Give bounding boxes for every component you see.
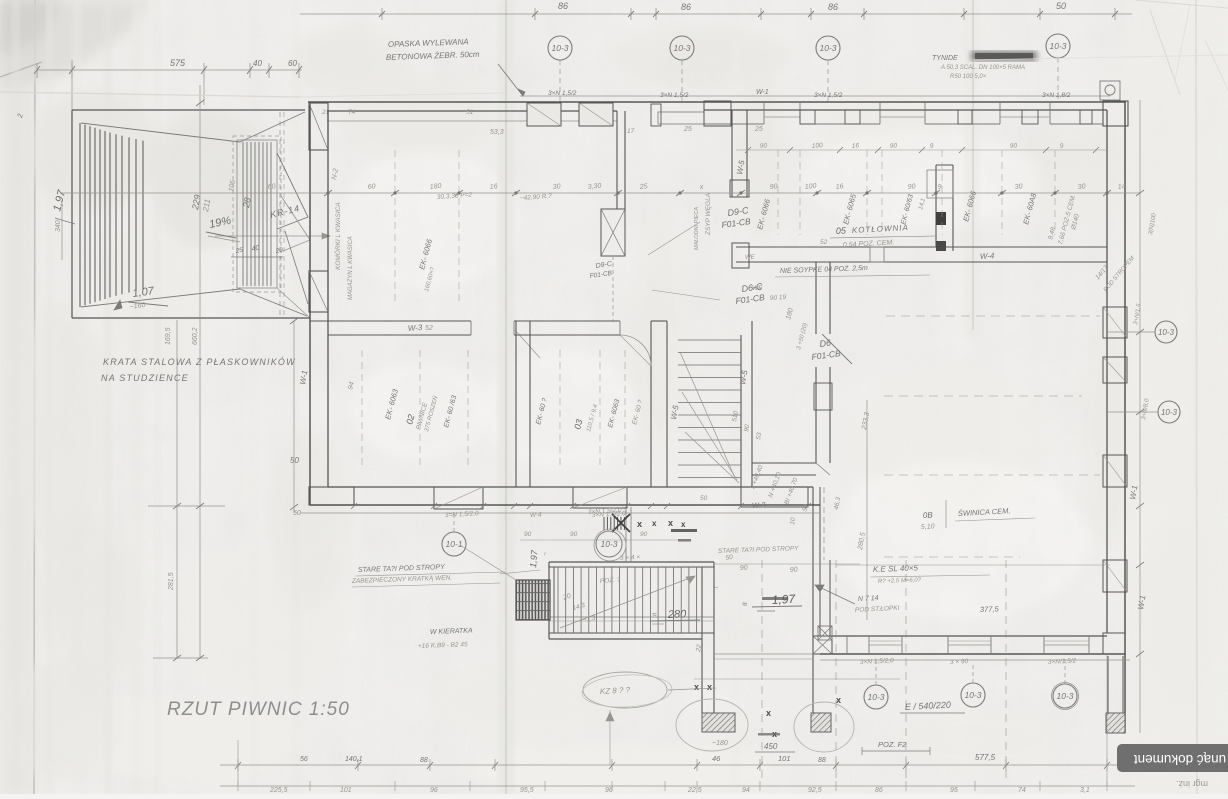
svg-text:60: 60	[288, 59, 297, 68]
lower wing walls	[549, 561, 714, 563]
svg-text:A 50,3 SCAL. DN 100×5 RAMA: A 50,3 SCAL. DN 100×5 RAMA	[940, 65, 1025, 71]
svg-text:x: x	[681, 520, 686, 529]
svg-text:101: 101	[340, 787, 352, 794]
axis circles 10-3 top	[548, 36, 572, 60]
svg-text:W-4: W-4	[530, 511, 543, 519]
svg-text:90: 90	[570, 531, 578, 538]
upper-left dimension line	[37, 69, 302, 71]
landing steps	[237, 140, 277, 288]
svg-text:28: 28	[241, 197, 253, 210]
svg-text:x: x	[707, 682, 712, 692]
long vertical dims	[199, 85, 201, 658]
svg-text:~180: ~180	[712, 740, 728, 747]
svg-text:40: 40	[253, 59, 262, 68]
svg-text:10-3: 10-3	[673, 43, 690, 53]
svg-text:ZSYP WĘGLA: ZSYP WĘGLA	[705, 193, 712, 236]
svg-text:660,2: 660,2	[192, 327, 199, 345]
svg-text:95: 95	[950, 787, 958, 794]
svg-text:x: x	[694, 682, 699, 692]
svg-text:140,1: 140,1	[345, 756, 363, 763]
svg-text:x: x	[766, 708, 771, 718]
svg-text:50: 50	[700, 495, 708, 502]
svg-text:340: 340	[55, 220, 62, 232]
svg-text:W-3: W-3	[752, 500, 767, 510]
svg-text:90: 90	[769, 183, 778, 191]
svg-text:3 × 4 ×: 3 × 4 ×	[620, 554, 641, 562]
svg-text:94: 94	[742, 787, 750, 794]
slab dashes room1	[394, 150, 396, 305]
hatched pier wing	[702, 713, 735, 732]
top dimension line	[300, 13, 1132, 15]
slab dashes kotlownia	[777, 150, 779, 235]
svg-text:05: 05	[836, 225, 848, 236]
svg-text:577,5: 577,5	[975, 753, 996, 762]
beam dashes big room	[886, 315, 1100, 317]
svg-text:74: 74	[1018, 787, 1026, 794]
svg-text:0B: 0B	[923, 510, 934, 520]
svg-text:60: 60	[267, 183, 276, 191]
interior stair	[740, 335, 742, 487]
dim row y150 kotlownia	[736, 149, 1107, 151]
wall W-5 vertical top	[731, 110, 733, 197]
svg-text:51: 51	[466, 109, 474, 116]
left wall	[309, 102, 311, 505]
svg-text:POZ. F2: POZ. F2	[878, 740, 907, 749]
svg-text:3,1: 3,1	[1080, 787, 1090, 794]
svg-text:25: 25	[754, 126, 763, 133]
svg-text:W KIERATKA: W KIERATKA	[430, 628, 473, 636]
svg-text:16: 16	[489, 183, 498, 191]
svg-text:50: 50	[290, 456, 299, 465]
room divider walls	[515, 321, 517, 487]
svg-text:90: 90	[640, 531, 648, 538]
svg-text:W-4: W-4	[980, 251, 996, 261]
svg-text:3×N 1,5/2: 3×N 1,5/2	[660, 92, 689, 99]
svg-text:D6: D6	[819, 337, 832, 349]
svg-text:MAŁODNI PIECA: MAŁODNI PIECA	[694, 207, 700, 250]
svg-text:225,5: 225,5	[269, 787, 288, 794]
svg-text:10-3: 10-3	[1056, 691, 1073, 701]
svg-text:25: 25	[683, 126, 692, 133]
svg-text:5,10: 5,10	[921, 523, 935, 531]
svg-text:377,5: 377,5	[980, 604, 1000, 614]
svg-text:14: 14	[1117, 183, 1126, 191]
top-right pencil streaks	[1150, 10, 1180, 95]
svg-text:25: 25	[234, 247, 244, 255]
axis circles bottom	[864, 685, 888, 709]
svg-text:96: 96	[605, 787, 613, 794]
svg-text:3×N 1,5/2: 3×N 1,5/2	[814, 92, 843, 99]
svg-text:100: 100	[804, 183, 816, 191]
svg-text:KZ 8 ? ?: KZ 8 ? ?	[600, 685, 631, 696]
bottom wall left section	[310, 504, 820, 506]
svg-text:30: 30	[552, 183, 561, 191]
svg-text:NA STUDZIENCE: NA STUDZIENCE	[101, 373, 189, 383]
dim line y513	[300, 512, 820, 514]
svg-text:450: 450	[764, 742, 778, 751]
svg-text:86: 86	[828, 2, 838, 12]
svg-text:POZ. ?: POZ. ?	[600, 577, 621, 585]
svg-text:86: 86	[875, 787, 883, 794]
svg-text:x: x	[836, 695, 841, 705]
svg-text:~: ~	[542, 551, 549, 556]
svg-text:90: 90	[790, 566, 798, 574]
svg-text:W-3: W-3	[408, 323, 424, 333]
svg-text:x: x	[652, 519, 657, 528]
svg-text:16: 16	[835, 183, 844, 191]
main outer walls	[308, 101, 1126, 103]
svg-text:180: 180	[429, 183, 441, 191]
right wall	[1124, 101, 1126, 733]
circle 10-3 sketchy	[596, 531, 622, 557]
bottom wall right section	[820, 653, 1125, 655]
svg-text:90: 90	[907, 183, 916, 191]
svg-text:92,5: 92,5	[808, 787, 822, 794]
svg-text:30: 30	[1077, 183, 1086, 191]
kotlownia bottom wall (corridor)	[736, 246, 1107, 248]
svg-text:60: 60	[367, 183, 376, 191]
corridor wall x816	[815, 262, 817, 334]
svg-text:25: 25	[638, 183, 648, 191]
svg-text:52: 52	[820, 239, 828, 246]
svg-text:90: 90	[524, 531, 532, 538]
svg-text:≈: ≈	[652, 610, 657, 619]
dim line y660 right	[820, 659, 1130, 661]
svg-text:95,5: 95,5	[520, 787, 534, 794]
small grid marks	[604, 517, 624, 530]
KZ ellipse note	[583, 672, 667, 708]
top wall pilasters	[527, 103, 561, 126]
svg-text:74: 74	[348, 109, 356, 116]
svg-text:3×N 1,8/2: 3×N 1,8/2	[1042, 92, 1071, 99]
svg-text:10-3: 10-3	[1161, 408, 1178, 417]
svg-text:100: 100	[812, 142, 824, 150]
svg-text:3×N 1,5/2: 3×N 1,5/2	[548, 90, 577, 97]
svg-text:N 7 14: N 7 14	[858, 595, 879, 603]
svg-text:96: 96	[430, 787, 438, 794]
svg-text:90: 90	[890, 142, 898, 150]
svg-text:16: 16	[852, 142, 860, 150]
svg-text:40: 40	[251, 245, 260, 253]
svg-text:x: x	[668, 518, 673, 528]
footer grey box	[1117, 744, 1228, 772]
bottom dim rows	[220, 764, 1135, 766]
svg-text:10-3: 10-3	[1158, 328, 1175, 337]
corridor bottom wall	[752, 462, 816, 464]
svg-text:56: 56	[300, 756, 308, 763]
svg-text:50: 50	[293, 510, 301, 517]
chute chevron	[277, 153, 308, 229]
circle 10-1	[442, 532, 466, 556]
svg-text:281,5: 281,5	[168, 572, 175, 591]
svg-text:~: ~	[714, 585, 718, 592]
wing treads	[557, 567, 559, 633]
svg-text:88: 88	[420, 757, 428, 764]
svg-text:90: 90	[1010, 142, 1018, 150]
slab dashes rooms 2,3	[361, 350, 363, 470]
svg-text:17: 17	[627, 128, 635, 135]
svg-text:mgr inż.: mgr inż.	[1176, 779, 1208, 789]
svg-text:10-1: 10-1	[445, 539, 462, 549]
smudged note	[971, 51, 1037, 61]
svg-text:52: 52	[425, 325, 433, 332]
chimney block	[935, 165, 937, 247]
svg-text:53,3: 53,3	[490, 129, 504, 136]
svg-text:90 19: 90 19	[770, 294, 787, 302]
creases	[0, 92, 300, 97]
svg-text:R50 100 5,0×: R50 100 5,0×	[950, 74, 987, 80]
svg-text:22: 22	[695, 644, 703, 654]
main dim line y193	[60, 192, 1140, 194]
grate	[516, 580, 550, 620]
hatched pier right	[1106, 713, 1125, 733]
svg-text:3 × 90: 3 × 90	[950, 658, 969, 666]
interior notch near top (coal drop)	[616, 111, 618, 209]
svg-text:TYNIDE: TYNIDE	[932, 55, 958, 62]
svg-text:101: 101	[778, 754, 791, 763]
svg-text:20: 20	[274, 247, 284, 255]
svg-text:50: 50	[1056, 1, 1066, 11]
svg-text:10-3: 10-3	[551, 43, 568, 53]
svg-text:10-3: 10-3	[819, 43, 836, 53]
svg-text:169,5: 169,5	[165, 327, 172, 345]
axis circles right	[1155, 321, 1177, 343]
svg-text:90: 90	[760, 142, 768, 150]
right margin axis line	[1139, 100, 1141, 733]
svg-text:86: 86	[558, 1, 568, 11]
svg-text:KRATA STALOWA Z PŁASKOWNIKÓ: KRATA STALOWA Z PŁASKOWNIKÓW	[103, 357, 296, 367]
svg-text:86: 86	[681, 2, 691, 12]
svg-text:3,30: 3,30	[587, 183, 601, 191]
svg-text:x: x	[637, 519, 642, 529]
svg-text:88: 88	[818, 757, 826, 764]
svg-text:KOMÓRKI L KWASICA: KOMÓRKI L KWASICA	[333, 202, 342, 270]
svg-text:90: 90	[740, 564, 748, 572]
svg-text:10-3: 10-3	[867, 692, 884, 702]
svg-text:≈: ≈	[742, 599, 747, 609]
svg-text:575: 575	[170, 58, 186, 68]
svg-text:10-3: 10-3	[964, 690, 981, 700]
svg-text:WE: WE	[745, 255, 756, 261]
svg-text:W-1: W-1	[756, 89, 769, 96]
svg-text:22,5: 22,5	[687, 787, 702, 794]
wall between wing and big room	[812, 487, 814, 713]
svg-text:RZUT PIWNIC 1:50: RZUT PIWNIC 1:50	[167, 699, 350, 720]
svg-text:30: 30	[1014, 183, 1023, 191]
svg-text:10-3: 10-3	[1049, 41, 1066, 51]
svg-text:280: 280	[667, 608, 688, 621]
svg-text:46: 46	[712, 754, 721, 763]
svg-text:1,97: 1,97	[528, 549, 540, 568]
svg-text:10-3: 10-3	[600, 539, 617, 549]
svg-text:unąć dokument: unąć dokument	[1134, 752, 1227, 767]
exterior stair left	[72, 109, 305, 111]
svg-text:MAGAZYN L KWASICA: MAGAZYN L KWASICA	[348, 236, 354, 300]
